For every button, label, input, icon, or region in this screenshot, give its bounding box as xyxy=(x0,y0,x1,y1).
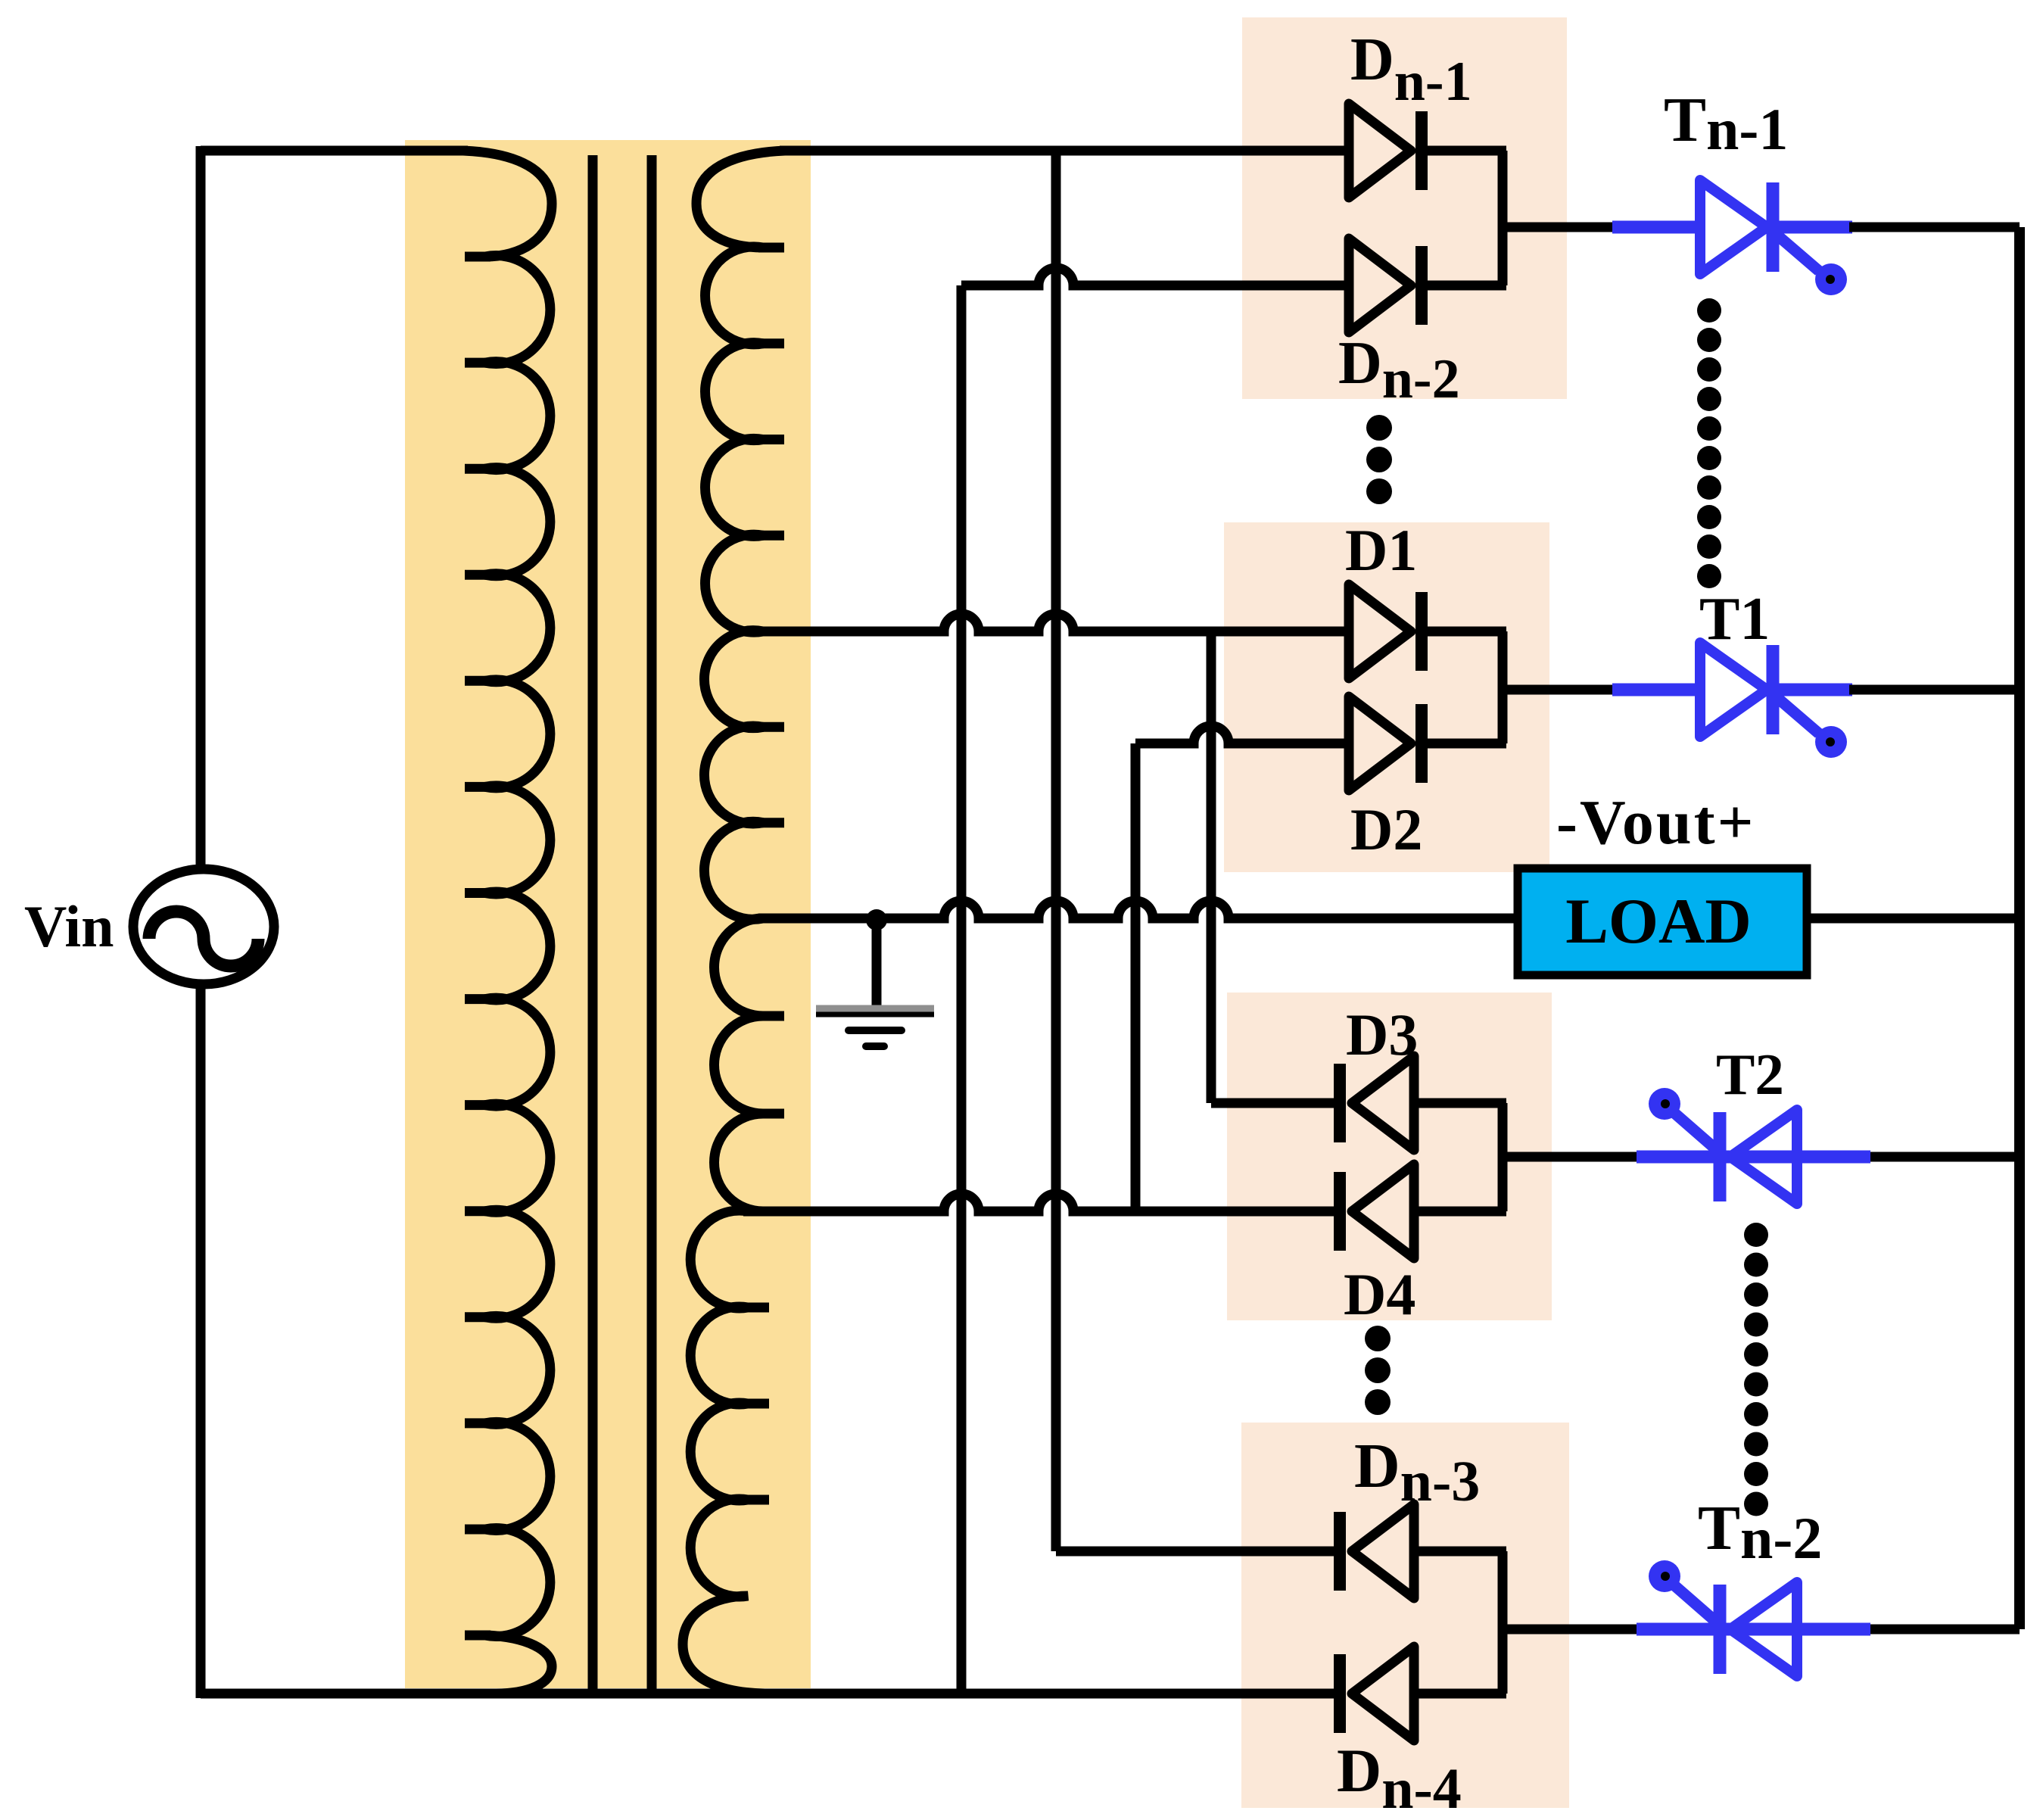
junction node (center tap / ground) xyxy=(866,909,887,930)
wire bottom rail xyxy=(201,1689,1340,1699)
wire right rail xyxy=(2014,227,2025,1629)
thyristor Tn-2 xyxy=(1503,1560,2020,1676)
svg-text:D4: D4 xyxy=(1344,1261,1415,1327)
svg-text:D3: D3 xyxy=(1346,1002,1418,1067)
svg-text:-Vout+: -Vout+ xyxy=(1556,787,1755,858)
svg-text:LOAD: LOAD xyxy=(1565,886,1752,957)
vertical bus line D (D2 wire to tap B) xyxy=(1131,743,1141,1211)
wire Dn-2 anode (hop over B) xyxy=(961,268,1349,285)
diode group highlight box Dn-1/Dn-2 xyxy=(1242,17,1567,399)
secondary winding section 3 xyxy=(715,918,764,1211)
wire tap B to D4 (hops over A,B) xyxy=(748,1194,1340,1211)
anode bracket Dn-3/Dn-4 xyxy=(1498,1551,1508,1694)
wire D3 cathode xyxy=(1211,1099,1340,1108)
anode bracket D3/D4 xyxy=(1498,1103,1508,1211)
svg-text:T2: T2 xyxy=(1716,1042,1784,1107)
load LOAD xyxy=(1518,868,1807,975)
diode D3 xyxy=(1340,1056,1506,1150)
diode group highlight box D3/D4 xyxy=(1227,993,1552,1320)
ground xyxy=(816,918,934,1046)
svg-text:D1: D1 xyxy=(1345,517,1417,583)
transformer winding highlight band xyxy=(405,140,811,1688)
wire tap A to D1 (hops over A,B) xyxy=(763,614,1349,631)
dots between T2 and Tn-2 xyxy=(1744,1223,1768,1516)
winding cusp ticks secondary xyxy=(743,248,784,1500)
diode Dn-1 xyxy=(1349,104,1506,198)
diode Dn-2 xyxy=(1349,238,1506,332)
secondary winding section 2 xyxy=(704,631,763,920)
svg-text:D2: D2 xyxy=(1350,796,1422,862)
wire LOAD to right rail xyxy=(1807,914,2020,924)
wire Dn-3 cathode xyxy=(1056,1547,1340,1557)
vertical bus line A (Dn-2 wire to bottom rail) xyxy=(957,285,967,1694)
vertical bus line B (top rail to Dn-3) xyxy=(1051,151,1061,1551)
wire left vertical lower xyxy=(196,983,206,1698)
cathode bracket D1/D2 xyxy=(1498,631,1508,743)
vertical bus line C (tap A to D3) xyxy=(1207,631,1216,1103)
svg-text:T1: T1 xyxy=(1699,586,1770,653)
dots between Dn-2 and D1 xyxy=(1366,415,1392,504)
dots between Tn-1 and T1 xyxy=(1697,298,1721,588)
cathode bracket Dn-1/Dn-2 xyxy=(1498,151,1508,285)
ac source Vin xyxy=(133,869,274,984)
secondary winding section 1 xyxy=(696,151,785,632)
transformer core xyxy=(593,155,652,1690)
diode group highlight box Dn-3/Dn-4 xyxy=(1241,1423,1569,1808)
thyristor T2 xyxy=(1503,1088,2020,1204)
wire left vertical upper xyxy=(196,146,206,871)
winding cusp ticks primary xyxy=(465,257,491,1635)
thyristor T1 xyxy=(1503,643,2020,758)
wire top rail right (secondary to Dn-1) xyxy=(780,146,1349,156)
diode D4 xyxy=(1340,1164,1506,1258)
diode D1 xyxy=(1349,584,1506,678)
diode D2 xyxy=(1349,697,1506,790)
thyristor Tn-1 xyxy=(1503,180,2020,295)
svg-text:Tn-1: Tn-1 xyxy=(1664,85,1788,162)
diode group highlight box D1/D2 xyxy=(1224,522,1549,872)
diode Dn-4 xyxy=(1340,1647,1506,1741)
wire center tap to LOAD (hops over A,B,D,C) xyxy=(763,901,1521,918)
diode Dn-3 xyxy=(1340,1504,1506,1598)
dots between D4 and Dn-3 xyxy=(1365,1326,1391,1415)
svg-text:Vin: Vin xyxy=(24,893,114,959)
transformer primary winding xyxy=(463,151,552,1694)
secondary winding section 4 xyxy=(683,1211,770,1694)
wire D2 anode (hop over C) xyxy=(1135,726,1349,743)
wire top rail left (to primary) xyxy=(201,146,468,156)
